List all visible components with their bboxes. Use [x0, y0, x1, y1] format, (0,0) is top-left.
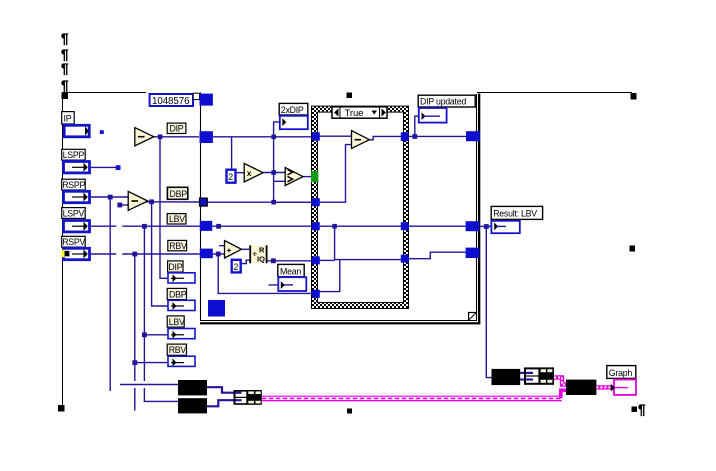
frame tunnel DBP (small dark) — [200, 198, 208, 206]
case tunnel green (boolean) — [311, 171, 318, 182]
junction dot RSPV branch — [132, 252, 137, 257]
wire add node top input stub — [219, 245, 224, 247]
svg-text:Result: LBV: Result: LBV — [493, 209, 537, 219]
multiply node — [244, 163, 263, 182]
junction dot RSPP branch — [108, 195, 113, 200]
junction dot Result LBV — [484, 224, 489, 229]
free blue square inside frame — [208, 300, 225, 317]
wire stub into Mean terminal — [269, 284, 292, 286]
local variable label LBV — [167, 316, 185, 327]
free label RBV — [168, 240, 187, 251]
indicator terminal Graph — [611, 380, 636, 395]
junction dot DIP updated branch — [412, 134, 417, 139]
svg-text:x: x — [247, 168, 252, 178]
wire inside case: tunnel4 stub — [320, 259, 335, 261]
selection border top-left segment — [62, 92, 146, 94]
junction dot LBV row mid — [216, 224, 221, 229]
svg-text:¶: ¶ — [61, 78, 69, 93]
wire black node 1 to bundle — [207, 387, 234, 393]
wire 2 constant to quotient node — [241, 260, 250, 263]
wire add output to quotient node — [241, 248, 250, 250]
wire case DIP output tunnel to frame tunnel — [409, 135, 466, 137]
selection handle bottom-center — [347, 409, 352, 414]
indicator terminal Mean — [278, 277, 306, 291]
wire Result junction into terminal — [486, 225, 497, 227]
junction dot LBV branch inside case — [332, 224, 337, 229]
wire inside case: DBP tunnel to subtract3 lower input — [320, 145, 352, 203]
cluster array wire bundle2 to black node 4 (magenta hatched) — [554, 378, 566, 385]
loose stub into subtract2 lower input — [120, 204, 129, 206]
selection handle mid-right — [630, 246, 636, 252]
wire DBP row (subtract2 output to case) — [146, 201, 200, 203]
wire add input branch down to Mean row — [218, 254, 311, 293]
svg-text:DIP: DIP — [168, 262, 182, 272]
black node 1 — [178, 380, 207, 395]
free label LBV — [167, 214, 186, 225]
wire inside case: subtract3 output to right tunnel — [370, 136, 405, 139]
indicator terminal Result: LBV — [491, 221, 519, 233]
black node 4 — [566, 380, 596, 395]
local variable terminal LBV — [168, 329, 195, 339]
junction dot quotient output — [271, 258, 276, 263]
control RSPV — [62, 236, 90, 259]
junction dot DIP/sub1 output — [158, 135, 163, 140]
loose wire dot right of IP — [100, 130, 104, 134]
junction dot DIP row at 2xDIP branch — [271, 135, 276, 140]
wire greater-equal output to green tunnel — [303, 176, 312, 178]
wire black node 2 to bundle — [207, 400, 234, 406]
selection handle bottom-right with paragraph mark — [632, 402, 647, 417]
wire into RBV local — [135, 362, 184, 364]
control LSPV — [62, 208, 90, 232]
case tunnel right DIP output — [401, 132, 409, 141]
svg-text:LSPV: LSPV — [63, 208, 85, 218]
wire Result junction down to bottom nodes — [486, 226, 491, 377]
indicator label 2xDIP — [279, 103, 308, 115]
svg-text:¶: ¶ — [61, 61, 69, 76]
svg-text:¶: ¶ — [61, 47, 69, 62]
case tunnel right lower — [401, 255, 409, 263]
free label DIP — [167, 123, 186, 134]
local variable terminal DBP — [168, 300, 195, 310]
wire inside case: LBV branch down to lower row — [335, 226, 404, 259]
local variable label DIP — [168, 261, 183, 272]
subtract node 2 — [128, 191, 148, 210]
wire RBV row (RSPV to frame tunnel and add node) — [91, 253, 225, 255]
frame tunnel DIP — [200, 131, 213, 143]
wire multiply output to greater-equal node — [263, 172, 285, 174]
junction dot RBV local branch — [132, 360, 137, 365]
wire quotient output to case tunnel — [267, 260, 312, 262]
wire into black node 1 — [120, 384, 178, 386]
svg-text:LBV: LBV — [169, 317, 185, 327]
black node 3 — [492, 369, 521, 385]
wire LBV row (LSPV to case and Result) — [91, 225, 492, 227]
svg-text:LBV: LBV — [169, 214, 185, 224]
selection handle top-center — [347, 93, 353, 99]
svg-text:Graph: Graph — [609, 368, 633, 378]
junction dot LSPV branch — [142, 224, 147, 229]
junction dot at case DBP tunnel row — [271, 200, 276, 205]
svg-text:¶: ¶ — [638, 402, 646, 417]
svg-text:IP: IP — [64, 114, 72, 124]
case tunnel left quotient — [312, 256, 320, 264]
svg-text:RSPP: RSPP — [62, 180, 85, 190]
indicator label Result: LBV — [491, 206, 542, 219]
loose end dot LSPP — [116, 165, 121, 170]
black node 2 — [178, 398, 207, 413]
paragraph marks column top-left — [61, 31, 69, 93]
wire LSPP output with loose end — [91, 166, 117, 168]
quotient and remainder node — [250, 245, 266, 263]
subtract node 1 — [135, 128, 154, 146]
wires black node 3 to bundle 2 — [520, 373, 527, 380]
wire DIP row (subtract1 output to case, with branch to 2 constant and 2xDIP) — [154, 122, 312, 169]
loose end dot subtract2 lower input — [117, 203, 122, 208]
svg-text:RSPV: RSPV — [62, 237, 85, 247]
wire vertical from DIP junction down to case tunnel row — [274, 139, 312, 202]
svg-text:+: + — [227, 245, 232, 255]
svg-text:RBV: RBV — [169, 345, 187, 355]
indicator label Mean — [278, 264, 304, 276]
wire into LBV local — [144, 334, 184, 336]
local variable terminal DIP — [168, 273, 195, 283]
case selector label "True" — [332, 107, 387, 119]
selection handle mid-left (yellow sliver + black square over RSPV) — [61, 250, 69, 257]
case tunnel left DBP — [312, 198, 320, 206]
free label DBP — [167, 187, 187, 199]
junction dot multiply output — [271, 170, 276, 175]
control LSPP — [62, 149, 90, 173]
add node — [225, 241, 242, 258]
indicator label Graph — [607, 366, 636, 379]
wire up to DIP updated terminal — [415, 116, 423, 136]
wire subtract2 output vertical to DBP local — [152, 202, 168, 306]
svg-text:¶: ¶ — [61, 31, 69, 46]
svg-text:DBP: DBP — [170, 189, 188, 199]
wire RSPP output to subtract2 — [91, 196, 129, 198]
local variable label DBP — [167, 288, 187, 299]
frame corner fold — [469, 313, 477, 321]
control IP — [62, 112, 89, 137]
case tunnel left DIP — [312, 132, 320, 140]
junction dot subtract2 output — [149, 199, 154, 204]
indicator terminal 2xDIP — [280, 116, 308, 129]
svg-text:2: 2 — [234, 262, 239, 272]
svg-text:2: 2 — [228, 172, 233, 182]
wire RSPV branch down to RBV local — [134, 254, 136, 411]
junction dot add node lower input — [216, 252, 221, 257]
wire inside case: DIP tunnel to subtract3 — [320, 135, 352, 137]
local variable label RBV — [167, 344, 186, 355]
svg-text:DIP: DIP — [170, 124, 184, 134]
control RSPP — [62, 179, 90, 203]
svg-text:DBP: DBP — [169, 290, 187, 300]
wire LSPV branch down to LBV local and bundle — [144, 226, 178, 401]
selection handle top-left — [62, 93, 69, 100]
frame tunnel right DIP updated — [466, 131, 480, 141]
svg-text:Mean: Mean — [280, 266, 301, 276]
case structure border (checkered) — [312, 106, 410, 308]
selection border top-right segment — [477, 92, 632, 94]
frame tunnel RBV — [200, 249, 213, 259]
case tunnel left LBV — [312, 222, 320, 230]
wire inside case: Mean row tunnel up to lower row — [320, 260, 340, 292]
cluster array wire black node 4 to Graph (magenta hatched) — [596, 385, 613, 389]
selection handle bottom-left — [58, 405, 65, 412]
svg-text:True: True — [345, 108, 364, 119]
frame tunnel right lower — [466, 248, 480, 258]
svg-text:LSPP: LSPP — [63, 150, 85, 160]
local variable terminal RBV — [168, 356, 195, 366]
subtract node 3 (inside case) — [352, 131, 370, 149]
svg-text:RBV: RBV — [169, 241, 187, 251]
outer structure frame — [200, 93, 480, 325]
svg-text:2xDIP: 2xDIP — [281, 105, 304, 115]
long cluster wire (magenta dashed) — [262, 390, 566, 400]
case tunnel right LBV — [401, 222, 409, 230]
frame tunnel right Result LBV — [466, 221, 480, 231]
wire sub1 output vertical to DIP local — [160, 137, 168, 278]
selection border left segment — [62, 93, 64, 407]
frame tunnel top (1048576) — [200, 94, 213, 106]
junction dot LBV local branch — [142, 332, 147, 337]
indicator label DIP updated — [418, 95, 475, 107]
wire 2 constant to multiply node — [236, 172, 244, 174]
svg-text:DIP updated: DIP updated — [420, 97, 466, 107]
bundle node 1 — [234, 390, 262, 405]
greater-or-equal node — [285, 168, 303, 186]
frame tunnel LBV — [200, 221, 212, 231]
svg-text:1048576: 1048576 — [152, 96, 190, 107]
bundle node 2 — [524, 367, 554, 384]
numeric constant 2 (quotient input) — [232, 260, 241, 273]
svg-text:IQ: IQ — [257, 254, 265, 263]
numeric constant 1048576 — [150, 93, 200, 107]
selection handle top-right — [631, 93, 637, 100]
svg-text:R: R — [259, 246, 265, 255]
numeric constant 2 (multiply input) — [227, 170, 236, 183]
wire case right lower tunnel jog to frame tunnel — [409, 252, 466, 259]
indicator terminal DIP updated — [419, 108, 447, 123]
case tunnel left Mean row — [312, 290, 320, 298]
wire RSPP branch down — [109, 197, 111, 391]
